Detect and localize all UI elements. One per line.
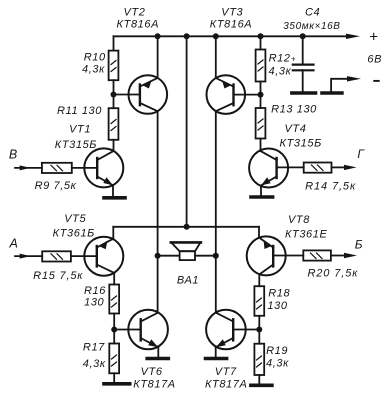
svg-text:В: В — [9, 148, 18, 162]
svg-text:КТ361Б: КТ361Б — [53, 228, 95, 240]
wire top supply rail — [114, 35, 349, 37]
wire R10 column — [113, 36, 115, 50]
svg-text:130: 130 — [84, 297, 104, 309]
svg-text:4,3к: 4,3к — [82, 63, 105, 75]
label minus terminal — [373, 80, 379, 82]
wire node to VT2 base — [114, 94, 140, 96]
svg-text:Г: Г — [357, 147, 365, 161]
svg-text:R14 7,5к: R14 7,5к — [305, 180, 356, 192]
transistor VT5 — [84, 237, 123, 276]
svg-text:4,3к: 4,3к — [83, 358, 106, 370]
ground under R17 — [104, 382, 130, 386]
wire VT6 emitter to ground — [157, 347, 159, 358]
svg-text:КТ817А: КТ817А — [133, 379, 176, 391]
resistor R18 — [254, 286, 264, 316]
transistor VT3 — [207, 75, 246, 114]
wire VT7 emitter to ground — [215, 347, 217, 358]
transistor VT4 — [249, 149, 288, 188]
svg-text:R10: R10 — [84, 52, 106, 64]
transistor VT7 — [206, 310, 246, 350]
svg-text:R19: R19 — [266, 345, 288, 357]
wire VT2 collector / left output column — [157, 111, 159, 313]
svg-text:КТ361Е: КТ361Е — [285, 228, 328, 240]
svg-text:R15 7,5к: R15 7,5к — [33, 270, 83, 282]
svg-text:VT7: VT7 — [215, 366, 237, 378]
svg-text:VT6: VT6 — [141, 366, 163, 378]
ground under C4 — [292, 91, 316, 95]
ground under minus wire — [322, 91, 342, 95]
svg-text:VT4: VT4 — [285, 123, 307, 135]
svg-text:VT3: VT3 — [221, 6, 243, 18]
svg-text:R12: R12 — [269, 53, 291, 65]
svg-text:КТ315Б: КТ315Б — [55, 139, 97, 151]
svg-text:350мк×16В: 350мк×16В — [283, 21, 340, 32]
svg-text:R11 130: R11 130 — [57, 105, 102, 117]
wire VT5 collector to R16 — [113, 273, 115, 285]
transistor VT2 — [129, 75, 168, 114]
resistor R12 — [256, 50, 266, 82]
wire VT3 emitter to rail — [215, 36, 217, 78]
wire VT8 collector to R18 — [258, 275, 260, 287]
wire VT3 collector / right output column — [215, 111, 217, 313]
svg-text:R20 7,5к: R20 7,5к — [307, 268, 358, 280]
resistor R14 — [304, 163, 332, 173]
svg-text:VT1: VT1 — [69, 124, 91, 136]
wire R15 to VT5 base — [71, 255, 97, 257]
wire minus terminal — [331, 79, 348, 93]
svg-text:R13 130: R13 130 — [271, 104, 317, 116]
wire VT2 emitter to rail — [157, 36, 159, 78]
wire B output arrow — [331, 255, 345, 257]
svg-text:С4: С4 — [305, 7, 320, 19]
wire VT1 emitter to ground — [112, 185, 114, 198]
wire R17 to ground — [113, 373, 115, 384]
svg-text:6В: 6В — [367, 54, 382, 66]
svg-text:R16: R16 — [84, 285, 106, 297]
wire VT4 base to R14 — [277, 166, 304, 168]
svg-text:VT8: VT8 — [288, 214, 310, 226]
wire G output arrow — [332, 166, 346, 168]
wire VT8 base to R20 — [273, 255, 303, 257]
transistor VT1 — [84, 148, 123, 187]
svg-text:4,3к: 4,3к — [266, 357, 289, 369]
wire VT3 base to node — [234, 94, 261, 96]
svg-text:130: 130 — [267, 300, 287, 312]
svg-text:ВА1: ВА1 — [177, 274, 199, 286]
wire VT4 emitter to ground — [260, 186, 262, 198]
node R12/R13 junction — [258, 92, 264, 98]
node R10/R11 junction — [111, 92, 117, 98]
resistor R11 — [109, 108, 119, 140]
resistor R15 — [42, 251, 71, 261]
wire node to VT6 base — [114, 329, 141, 331]
ground under VT7 — [206, 357, 227, 361]
wire node to VT7 base — [233, 329, 259, 331]
svg-text:КТ817А: КТ817А — [205, 379, 248, 391]
resistor R9 — [42, 163, 72, 173]
wire R16-R17 column — [113, 314, 115, 344]
resistor R16 — [109, 285, 119, 314]
ground under VT4 — [251, 195, 273, 199]
svg-text:VT2: VT2 — [124, 6, 146, 18]
wire R18-R19 column — [258, 316, 260, 344]
svg-text:КТ816А: КТ816А — [210, 18, 253, 30]
wire VT5 emitter up to rail — [112, 227, 114, 239]
svg-text:+: + — [291, 55, 296, 64]
speaker BA1 — [158, 255, 180, 257]
ground under VT6 — [147, 357, 168, 361]
resistor R10 — [109, 51, 119, 81]
svg-text:А: А — [9, 237, 19, 251]
ground under VT1 — [104, 196, 125, 200]
resistor R17 — [109, 344, 119, 374]
wire VT8 emitter to rail corner — [258, 227, 260, 238]
svg-text:R17: R17 — [83, 342, 105, 354]
wire R12 column — [260, 36, 262, 49]
svg-text:VT5: VT5 — [64, 213, 86, 225]
svg-text:КТ315Б: КТ315Б — [280, 138, 322, 150]
wire B input — [15, 167, 42, 169]
wire R19 to ground — [258, 375, 260, 385]
transistor VT6 — [128, 310, 168, 350]
wire +6V arrow — [346, 34, 360, 39]
svg-text:КТ816А: КТ816А — [117, 18, 160, 30]
transistor VT8 — [247, 236, 286, 275]
wire middle column — [186, 36, 188, 227]
svg-text:R18: R18 — [268, 288, 290, 300]
ground under R19 — [251, 383, 272, 387]
wire R9 to VT1 base — [72, 167, 97, 169]
wire A input — [15, 255, 42, 257]
svg-text:+: + — [369, 28, 378, 45]
resistor R20 — [303, 250, 331, 260]
wire emitter rail (VT5-VT8) — [113, 226, 259, 228]
svg-text:R9 7,5к: R9 7,5к — [35, 180, 77, 192]
svg-text:4,3к: 4,3к — [269, 66, 292, 78]
capacitor C4 — [302, 36, 304, 64]
resistor R13 — [256, 108, 266, 139]
resistor R19 — [254, 344, 264, 375]
svg-text:Б: Б — [355, 238, 363, 252]
